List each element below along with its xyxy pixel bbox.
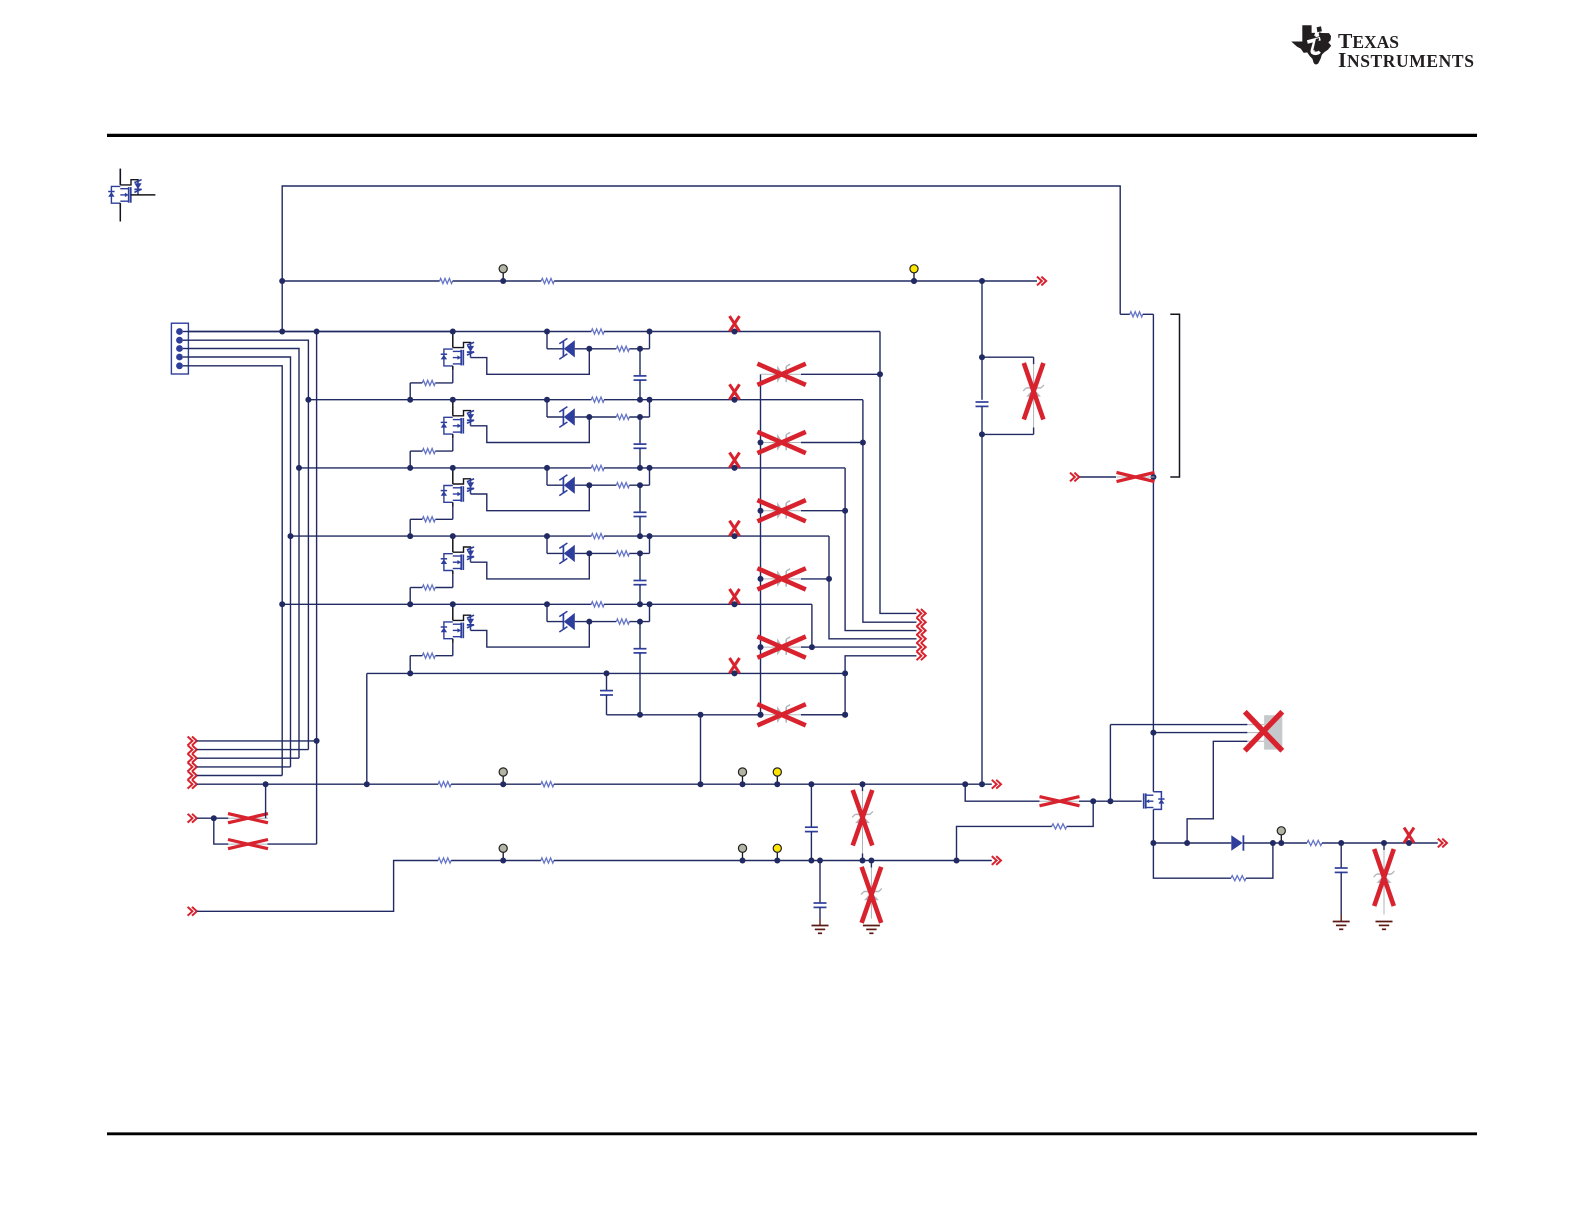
jumper X3 (DNP) (1040, 800, 1080, 802)
capacitor C6 (606, 673, 608, 690)
jumper X2 (DNP) (228, 843, 268, 845)
junction dots (450, 329, 456, 335)
diode D2 (DNP crossed) (761, 442, 778, 444)
pin1 vertical (316, 332, 318, 845)
capacitor C4 (639, 553, 641, 580)
node net673 (367, 672, 845, 674)
crossed part on bus4 (DNP) (730, 521, 740, 536)
diode D5 (DNP crossed) (761, 646, 778, 648)
connector pin 1 (176, 328, 183, 335)
resistor R_z3 (616, 483, 629, 488)
zener D_z2 branch (546, 400, 548, 417)
capacitor C_in (981, 357, 983, 400)
wire Q1 source down (452, 370, 454, 383)
resistor R_z4 (616, 551, 629, 556)
wire Q4 source down (452, 575, 454, 588)
junction dots (450, 533, 456, 539)
resistor R_r1b (541, 782, 554, 787)
wire diode5 row to bundle (812, 646, 917, 648)
connector J1 (171, 323, 188, 374)
wire vertical x1153 (1152, 314, 1154, 792)
testpoint (gray) (502, 776, 504, 784)
resistor R_bus1 (591, 329, 604, 334)
wire Q2 source down (452, 438, 454, 451)
pin5 wire (188, 366, 282, 776)
resistor R_g5 (422, 653, 435, 658)
diode D3 (DNP crossed) (761, 510, 778, 512)
resistor R_g2 (422, 449, 435, 454)
wire (410, 518, 422, 520)
offpage connector LED (917, 651, 926, 660)
testpoint TP1 (gray) (502, 273, 504, 281)
capacitor C_rail (810, 784, 812, 827)
offpage connector OUT (1438, 839, 1447, 848)
node net715 (607, 714, 761, 716)
wire bus5 corner down (811, 604, 813, 647)
diode D1 (DNP crossed) (761, 373, 778, 375)
wire x1110 up (1109, 725, 1111, 802)
transistor Q5 (452, 604, 454, 620)
connector pin 4 (176, 354, 183, 361)
wire Q1 gate run (471, 349, 590, 375)
offpage connector rail1 right (992, 780, 1001, 789)
testpoint (gray) (1280, 835, 1282, 843)
wire (410, 450, 422, 452)
junction dots (450, 397, 456, 403)
pin4 wire (188, 357, 290, 767)
node bus4 wire (291, 535, 592, 537)
TVS D_out2 (DNP crossed) (1383, 843, 1385, 850)
junction dots (450, 601, 456, 607)
capacitor C_gnd (819, 861, 821, 904)
node bus2 wire (308, 399, 591, 401)
connector pin 5 (176, 362, 183, 369)
ground (1376, 921, 1393, 923)
wire bypass resistor path (1153, 843, 1231, 878)
wire Q2 source down (1152, 809, 1154, 843)
resistor R_r1a (438, 782, 451, 787)
wire (604, 467, 845, 469)
resistor R_r2a (438, 858, 451, 863)
offpage connector LED (917, 643, 926, 652)
connector pin 3 (176, 345, 183, 352)
svg-text:INSTRUMENTS: INSTRUMENTS (1338, 48, 1475, 72)
offpage connector LED (917, 618, 926, 627)
wire Q3 gate run (471, 485, 590, 511)
capacitor C2 (639, 417, 641, 444)
resistor R_bus5 (591, 602, 604, 607)
wire (604, 399, 863, 401)
node out row (1153, 842, 1231, 844)
wire Q3 source down (452, 507, 454, 520)
node bus5 wire (282, 603, 591, 605)
capacitor C3 (639, 485, 641, 512)
ground (819, 919, 821, 926)
wire (604, 331, 880, 333)
resistor R_r2b (541, 858, 554, 863)
horizontal rule top (107, 134, 1477, 137)
capacitor C_out (1340, 843, 1342, 868)
offpage connector VIN (1037, 277, 1046, 286)
resistor R_z2 (616, 414, 629, 419)
wire Q2 gate run (471, 417, 590, 443)
jumper X (DNP) (1117, 476, 1155, 478)
resistor R_z5 (616, 619, 629, 624)
wire VIN top loop (282, 186, 1120, 332)
capacitor C1 (639, 349, 641, 376)
transistor Q2 (452, 400, 454, 416)
transistor Q4 (452, 536, 454, 552)
resistor R_top right (1120, 313, 1130, 315)
wire bundle6 (845, 656, 916, 715)
node dots on VIN row (279, 278, 285, 284)
wire (604, 603, 812, 605)
wire bus3 corner down (845, 468, 916, 631)
wire greybox pin2 (1153, 732, 1247, 734)
offpage connector rail2 left (188, 907, 197, 916)
TVS D_in (DNP crossed) (1033, 357, 1035, 364)
wire greybox pin3 (1187, 741, 1247, 843)
wire (453, 280, 542, 282)
wire vertical x760 (760, 374, 762, 715)
crossed part on bus1 (DNP) (730, 316, 740, 331)
connector J2 (DNP crossed grey box) (1264, 715, 1282, 749)
pin2 wire (188, 340, 308, 749)
wire cap block right branch (982, 356, 1034, 358)
wire (604, 535, 829, 537)
testpoint (yellow) (776, 776, 778, 784)
testpoint TP2 (yellow) (913, 273, 915, 281)
resistor R_out (1307, 840, 1322, 845)
wire (410, 655, 422, 657)
wire (410, 382, 422, 384)
resistor R_bus3 (591, 465, 604, 470)
Texas Instruments logo (1291, 25, 1474, 72)
offpage connector ctrl5 (188, 771, 197, 780)
wire to jmp2 (214, 818, 229, 844)
TVS D_r2 (DNP crossed) (870, 861, 872, 868)
testpoint (gray) (742, 776, 744, 784)
offpage connector ctrl4 (188, 763, 197, 772)
crossed part on bus2 (DNP) (730, 384, 740, 399)
resistor R_g1 (422, 380, 435, 385)
offpage connector LED (917, 634, 926, 643)
testpoint (yellow) (776, 852, 778, 860)
offpage connector LED (917, 609, 926, 618)
wire bus1 corner down (880, 332, 917, 614)
testpoint (gray) (502, 852, 504, 860)
horizontal rule bottom (107, 1132, 1477, 1135)
testpoint (gray) (742, 852, 744, 860)
wire (1080, 476, 1116, 478)
diode D_out (1231, 835, 1242, 850)
crossed part on bus5 (DNP) (730, 589, 740, 604)
TVS D_r1 (DNP crossed) (862, 784, 864, 791)
zener D_z4 branch (546, 536, 548, 553)
resistor R_bus2 (591, 397, 604, 402)
svg-text:TEXAS: TEXAS (1338, 29, 1399, 53)
jumper X1 (DNP) (228, 817, 268, 819)
offpage connector rail1 (188, 780, 197, 789)
resistor R_vin2 (541, 278, 554, 283)
transistor Q3 (452, 468, 454, 484)
wire Q5 gate run (471, 622, 590, 648)
wire x700 down to rail1 (700, 715, 702, 784)
node bus1 wire (188, 331, 591, 333)
resistor R_vin1 (440, 278, 453, 283)
resistor R_z1 (616, 346, 629, 351)
transistor Q (corner symbol) (119, 169, 121, 185)
zener D_z5 branch (546, 604, 548, 621)
wire gate divider (1067, 801, 1094, 826)
capacitor C5 (639, 622, 641, 649)
diode D4 (DNP crossed) (761, 578, 778, 580)
resistor R_byp (1231, 876, 1246, 881)
wire (410, 587, 422, 589)
pin1 wire to bus1 (188, 331, 452, 333)
offpage connector ctrl1 (188, 737, 197, 746)
wire bus4 corner down (829, 536, 917, 639)
ground (863, 925, 880, 927)
wire bus2 corner down (863, 400, 917, 623)
wire Q4 gate run (471, 553, 590, 579)
wire rail1 to gate row (965, 784, 1039, 801)
connector pin 2 (176, 337, 183, 344)
resistor R_gd (1052, 824, 1067, 829)
offpage connector LED (917, 626, 926, 635)
wire (554, 280, 1037, 282)
node rail1 (197, 783, 438, 785)
offpage connector jmp1 (188, 814, 197, 823)
resistor R_bus4 (591, 534, 604, 539)
resistor R_g4 (422, 585, 435, 590)
connector bracket J (1170, 314, 1179, 477)
wire vertical x982 VIN to rail1 (981, 281, 983, 357)
ground (1340, 915, 1342, 922)
wire Q5 source down (452, 643, 454, 656)
offpage connector rail2 right (992, 856, 1001, 865)
junction dots (450, 465, 456, 471)
zener D_z3 branch (546, 468, 548, 485)
pin3 wire (188, 349, 299, 759)
offpage connector ctrl2 (188, 745, 197, 754)
wire VIN row y281 (282, 280, 439, 282)
transistor Q2 (1153, 792, 1161, 810)
diode D6 (DNP crossed) (761, 714, 778, 716)
crossed part (DNP) (1404, 828, 1414, 843)
transistor Q1 (452, 332, 454, 348)
node bus3 wire (299, 467, 591, 469)
offpage connector EN (1070, 473, 1079, 482)
crossed part on bus3 (DNP) (730, 453, 740, 468)
wire greybox pin1 (1110, 724, 1247, 726)
offpage connector ctrl3 (188, 754, 197, 763)
resistor R_g3 (422, 517, 435, 522)
zener D_z1 branch (546, 332, 548, 349)
